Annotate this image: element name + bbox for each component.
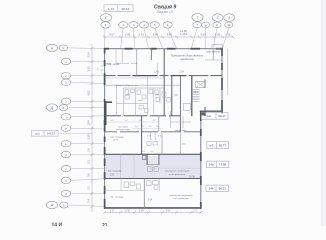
svg-text:2.84: 2.84 <box>139 210 144 213</box>
svg-text:2.64: 2.64 <box>86 120 90 126</box>
wall x=191.8 core <box>191 76 193 117</box>
kitchen fixtures lower band left <box>124 181 159 189</box>
svg-text:пом. мебели: пом. мебели <box>206 52 220 54</box>
outer wall top base <box>104 48 223 50</box>
left axis bubble е <box>61 141 71 147</box>
wall x=180.4 extension <box>179 132 181 155</box>
svg-text:жилая комн.: жилая комн. <box>175 130 187 132</box>
top dimension numbers <box>109 29 230 37</box>
white stair notch in blue band <box>147 155 159 167</box>
light partition lower band x=159.7 <box>159 179 161 192</box>
elevator shaft 1 <box>196 81 205 87</box>
upper right light line y=60 <box>205 59 222 61</box>
left axis bubble б <box>61 190 71 196</box>
svg-text:2.9: 2.9 <box>193 210 197 213</box>
wall y=115.8 left part <box>105 115 181 117</box>
left rotated dimension numbers <box>86 52 90 203</box>
wall x=164.2 <box>163 49 165 116</box>
elevator shaft 2 dark <box>201 111 206 116</box>
outer wall left base <box>104 48 106 209</box>
bottom dimension numbers <box>110 210 198 213</box>
upper band dark stub x=151.3 <box>150 49 152 60</box>
bottom dimension ticks <box>103 211 202 214</box>
svg-text:3.54: 3.54 <box>86 52 90 58</box>
light partition lower band x=121 <box>120 179 122 191</box>
left axis bubble п <box>61 58 71 64</box>
axis bubble 7 top <box>192 14 203 22</box>
left axis bubble в <box>61 177 71 183</box>
axis bubble 10 top <box>224 14 235 22</box>
dark rect left of notch <box>142 156 146 160</box>
outer wall top piers <box>104 48 223 50</box>
svg-text:21: 21 <box>102 223 108 226</box>
axis bubble 8 <box>202 22 210 28</box>
svg-text:9.07: 9.07 <box>109 32 115 36</box>
axis bubble 5 <box>150 22 159 28</box>
stair notch walls in blue <box>146 154 148 165</box>
svg-text:2.84: 2.84 <box>153 32 159 36</box>
axis bubble 2 <box>119 22 128 28</box>
axis bubble 10 bottom <box>225 22 233 28</box>
partition lower band x=144.3 <box>143 179 145 208</box>
axis bubble 1 <box>101 22 110 28</box>
partition y=63 upper-left room <box>105 62 137 64</box>
svg-text:14а: 14а <box>209 163 214 167</box>
wall x=158.8 mid light <box>158 116 160 132</box>
svg-text:3.64: 3.64 <box>166 210 171 213</box>
axis bubble 9 top <box>212 14 223 22</box>
svg-text:3.3: 3.3 <box>86 160 90 164</box>
svg-text:1-14: 1-14 <box>108 7 114 11</box>
wall x=141.6 mid <box>141 116 143 155</box>
left axis bubble л <box>61 73 71 79</box>
svg-text:3.6: 3.6 <box>86 173 90 177</box>
scrollbar edge line <box>321 0 323 226</box>
svg-text:142.57: 142.57 <box>47 132 56 136</box>
svg-text:0.91: 0.91 <box>139 32 145 36</box>
svg-text:помещение операторов: помещение операторов <box>170 195 194 197</box>
outer wall left piers <box>104 48 106 209</box>
svg-text:3.64: 3.64 <box>167 32 173 36</box>
mid dim line <box>133 127 161 129</box>
svg-text:3.38: 3.38 <box>86 134 90 140</box>
wall x=180.4 core left <box>179 76 181 132</box>
area table 2 <box>207 142 229 149</box>
left axis bubble Ж pair bottom <box>46 201 57 208</box>
partition x=213.2 upper right <box>212 49 214 60</box>
right lower wall piers <box>200 111 202 209</box>
left wall dark jog corner <box>104 101 112 103</box>
svg-text:14б: 14б <box>209 187 214 191</box>
svg-text:ванн: ванн <box>138 100 143 102</box>
svg-text:90.77: 90.77 <box>219 143 227 147</box>
svg-text:2.64: 2.64 <box>148 199 153 201</box>
svg-text:пов. площадь: пов. площадь <box>110 136 123 138</box>
svg-text:14 И: 14 И <box>52 223 63 227</box>
left axis bubble к <box>61 79 71 85</box>
top dimension ticks <box>103 36 235 39</box>
svg-text:2.98: 2.98 <box>125 210 130 213</box>
axis bubble 7 bottom <box>193 22 202 28</box>
axis bubble 4 <box>139 22 148 28</box>
mid rooms partition horizontals <box>117 88 165 104</box>
wall x=162 mid band <box>161 133 163 154</box>
step wall right <box>200 110 223 112</box>
svg-text:пом. кухня: пом. кухня <box>107 63 120 66</box>
svg-text:помещение уборочного инв.: помещение уборочного инв. <box>115 85 139 87</box>
svg-text:3.2: 3.2 <box>86 186 90 190</box>
svg-text:3.4: 3.4 <box>86 199 90 203</box>
upper band partition x=116 <box>115 49 117 64</box>
corridor inner parallel line y=78 <box>105 77 164 79</box>
blue highlighted apartment <box>105 155 200 179</box>
top axis leader lines <box>105 28 229 49</box>
core threshold marks mid band <box>147 132 158 146</box>
svg-text:90.14: 90.14 <box>122 7 130 11</box>
svg-text:90.17: 90.17 <box>218 114 226 118</box>
svg-text:3.27: 3.27 <box>110 210 115 213</box>
wall y=178.5 bottom of blue <box>105 178 201 180</box>
left axis bubble Д pair <box>46 104 57 111</box>
wall y=131.8 across <box>105 131 201 133</box>
right overhang line <box>227 49 229 96</box>
svg-text:2.04: 2.04 <box>179 71 184 73</box>
mid dim row numbers <box>135 126 160 128</box>
svg-text:3: 3 <box>217 16 219 20</box>
axis bubble 3 <box>129 22 138 28</box>
left wall thick segment <box>104 101 107 125</box>
svg-text:10: 10 <box>227 23 231 27</box>
svg-text:3.12: 3.12 <box>86 66 90 72</box>
corridor wall y=75.6 <box>105 75 222 77</box>
left dimension ticks <box>91 47 94 208</box>
wall x=205 core right segments <box>204 80 206 117</box>
svg-text:5.06: 5.06 <box>215 32 221 36</box>
top bay outline <box>212 45 223 49</box>
left elevation box <box>32 131 59 137</box>
svg-text:2.98: 2.98 <box>125 32 131 36</box>
svg-text:16.96: 16.96 <box>189 176 195 178</box>
mid rooms partition verticals <box>117 76 161 116</box>
partition x=122 upper <box>121 49 123 64</box>
outer wall right piers <box>221 48 223 113</box>
window tick left wall <box>100 66 104 70</box>
left axis leader lines <box>69 48 104 207</box>
svg-text:пов. площадь: пов. площадь <box>108 171 121 173</box>
svg-text:Г: Г <box>105 16 107 20</box>
svg-text:73.98: 73.98 <box>219 163 227 167</box>
svg-text:л: л <box>64 74 67 78</box>
svg-text:7.45: 7.45 <box>225 32 231 36</box>
stair treads in notch <box>148 157 159 163</box>
svg-text:площадь общая: площадь общая <box>116 129 130 131</box>
light partition lower band y=190.6 <box>105 190 144 192</box>
landing rect core <box>184 104 191 111</box>
partition x=136.8 upper <box>136 49 138 76</box>
left vertical dimension line <box>91 44 93 212</box>
axis bubble Г top-left <box>100 14 111 22</box>
left axis bubble з <box>61 114 71 120</box>
upper band light partition x=157.5 <box>157 63 159 75</box>
stair treads core <box>192 90 199 102</box>
svg-text:и обслуживания: и обслуживания <box>169 174 186 176</box>
axis bubble 6 <box>163 22 172 28</box>
svg-text:16.2: 16.2 <box>194 92 199 94</box>
svg-text:и обслуживания: и обслуживания <box>173 198 189 200</box>
left axis bubble д <box>61 151 71 157</box>
svg-text:усл.: усл. <box>35 133 40 136</box>
faint shelf line in blue band <box>147 167 200 169</box>
svg-text:к-5: к-5 <box>210 143 214 147</box>
svg-text:назначения: назначения <box>180 58 194 61</box>
axis bubble 9 bottom <box>213 22 221 28</box>
left axis bubble и <box>61 98 71 104</box>
outer wall bottom <box>104 207 201 209</box>
svg-text:пов. площадь: пов. площадь <box>110 196 123 198</box>
left axis bubble г <box>61 165 71 171</box>
dim row below wall y=116 <box>108 121 160 123</box>
bottom dimension line <box>104 211 201 213</box>
svg-text:1.85: 1.85 <box>110 174 115 176</box>
svg-text:16.96: 16.96 <box>113 139 119 141</box>
svg-text:64.21: 64.21 <box>219 187 227 191</box>
svg-text:1.63: 1.63 <box>154 71 159 73</box>
right rooms partitions E <box>171 111 191 128</box>
area table 4 <box>206 185 229 191</box>
bath fixtures small <box>125 90 171 113</box>
wall y=154.3 top of blue <box>105 153 201 155</box>
svg-text:1-м: 1-м <box>206 114 211 118</box>
scrollbar band right edge <box>322 0 326 226</box>
wall x=171.8 <box>171 76 173 116</box>
light partition in blue x=134 <box>133 154 135 178</box>
small rects below notch in blue <box>148 167 159 172</box>
svg-text:4.62: 4.62 <box>86 90 90 96</box>
outer wall right upper base <box>221 48 223 113</box>
svg-text:помещение операторов: помещение операторов <box>165 170 190 172</box>
area table 3 <box>206 161 229 167</box>
area table 1 <box>201 113 228 120</box>
svg-text:2.9: 2.9 <box>86 148 90 152</box>
svg-text:7: 7 <box>197 16 199 20</box>
light partition in blue x=120.8 <box>120 154 122 178</box>
svg-text:1.464: 1.464 <box>180 32 187 36</box>
svg-text:Видзел 19: Видзел 19 <box>157 10 172 14</box>
left axis bubble ж <box>61 125 71 131</box>
legend box top-left <box>104 5 133 12</box>
svg-text:4: 4 <box>228 16 230 20</box>
corridor lower light wall y=85 <box>105 84 180 86</box>
left elevation box leader <box>58 132 92 134</box>
top dimension line <box>104 36 234 38</box>
left axis bubble Н pair <box>46 44 57 51</box>
outer wall right lower base <box>200 111 202 209</box>
svg-text:9.60: 9.60 <box>200 32 206 36</box>
